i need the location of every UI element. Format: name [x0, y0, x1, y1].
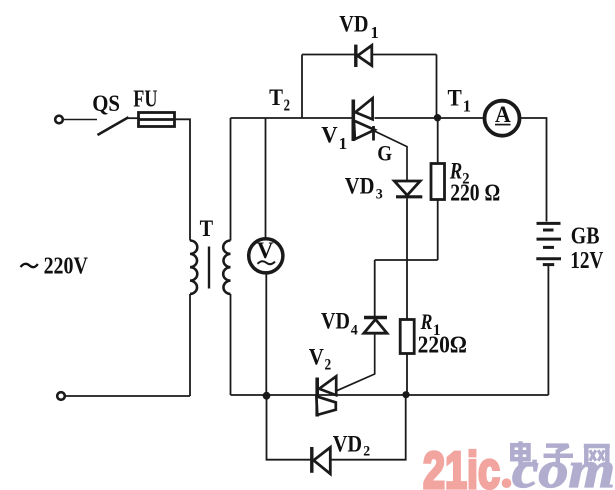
wire VD3 to R1 [406, 198, 408, 319]
watermark 网 character [584, 446, 610, 466]
svg-text:2: 2 [363, 443, 370, 459]
node junction dot R1/bottom rail [402, 391, 409, 398]
svg-text:21ic: 21ic [423, 442, 500, 490]
wire VD2 loop [267, 395, 406, 460]
wire battery bottom [547, 266, 549, 396]
svg-text:1: 1 [339, 134, 348, 153]
wire VD4 top branch [374, 260, 376, 316]
wire R1 bottom [406, 354, 408, 395]
transformer T secondary winding [223, 241, 230, 295]
diode VD3 [394, 181, 422, 197]
svg-text:FU: FU [133, 86, 157, 112]
svg-text:4: 4 [351, 323, 358, 339]
svg-text:T: T [200, 216, 214, 242]
transformer T primary winding [190, 241, 197, 295]
svg-text:VD: VD [321, 309, 350, 335]
svg-text:V: V [257, 238, 274, 264]
wire R2 bottom [437, 200, 439, 261]
svg-text:220V: 220V [44, 252, 89, 279]
wire T1 to R2 [437, 118, 439, 164]
wire VD1 branch top [302, 54, 437, 56]
terminal bottom-left [57, 392, 65, 400]
svg-text:A: A [495, 102, 511, 128]
diode VD4 [364, 318, 387, 334]
svg-text:T: T [269, 85, 283, 110]
fuse FU [139, 113, 175, 127]
wire V1 gate to VD3 [374, 131, 407, 181]
svg-text:1: 1 [371, 23, 379, 42]
svg-text:VD: VD [345, 174, 375, 200]
svg-text:VD: VD [339, 12, 368, 38]
voltmeter tilde [258, 261, 276, 264]
wire VD1 branch right vertical [436, 55, 438, 118]
thyristor V1 [353, 98, 374, 141]
wire voltmeter top branch [265, 118, 267, 238]
resistor R2 [431, 164, 445, 200]
svg-text:2: 2 [284, 96, 290, 115]
svg-text:QS: QS [92, 91, 120, 116]
wire switch to fuse [126, 117, 139, 119]
ammeter A underline [495, 124, 511, 126]
watermark 电 character [512, 441, 534, 464]
svg-text:T: T [448, 85, 462, 110]
svg-text:com: com [512, 442, 615, 490]
svg-text:V: V [321, 123, 337, 149]
svg-text:V: V [309, 345, 324, 371]
transformer T core [208, 247, 210, 289]
wire VD1 branch left vertical [301, 55, 303, 119]
label ~220V tilde [21, 264, 38, 267]
svg-text:VD: VD [333, 431, 362, 457]
svg-text:R: R [420, 309, 433, 334]
resistor R1 [400, 320, 414, 354]
svg-text:G: G [377, 140, 392, 165]
diode VD2 [312, 447, 331, 474]
node T1 junction dot [434, 114, 441, 121]
svg-text:220Ω: 220Ω [418, 332, 467, 359]
svg-text:12V: 12V [570, 247, 603, 274]
wire bottom-left [65, 395, 191, 397]
wire fuse to corner [175, 119, 191, 240]
svg-text:2: 2 [325, 357, 332, 374]
wire voltmeter bottom branch [265, 274, 267, 396]
wire ammeter to battery [520, 118, 547, 222]
wire primary bottom [189, 294, 191, 396]
wire terminal to switch [64, 119, 98, 121]
svg-text:GB: GB [571, 223, 600, 250]
battery GB plates [536, 223, 561, 264]
node junction dot voltmeter/bottom rail [263, 392, 271, 400]
svg-text:1: 1 [463, 96, 471, 115]
svg-text:3: 3 [376, 186, 383, 202]
thyristor V2 [316, 376, 336, 416]
wire jog R2 to VD4 [375, 259, 438, 261]
watermark 21ic [423, 442, 511, 490]
wire secondary top [230, 118, 232, 241]
wire V2 gate to VD4 [337, 335, 375, 391]
watermark 子 character [544, 446, 574, 466]
diode VD1 [356, 45, 372, 67]
wire secondary bottom [230, 294, 232, 395]
svg-text:220 Ω: 220 Ω [450, 181, 500, 207]
ammeter PA [485, 101, 520, 136]
voltmeter PV [249, 239, 283, 273]
terminal top-left [55, 116, 63, 124]
wire T1 rail [375, 117, 485, 119]
wire T2 rail [231, 117, 354, 119]
wire bottom rail [231, 394, 549, 396]
switch QS blade [98, 117, 129, 135]
